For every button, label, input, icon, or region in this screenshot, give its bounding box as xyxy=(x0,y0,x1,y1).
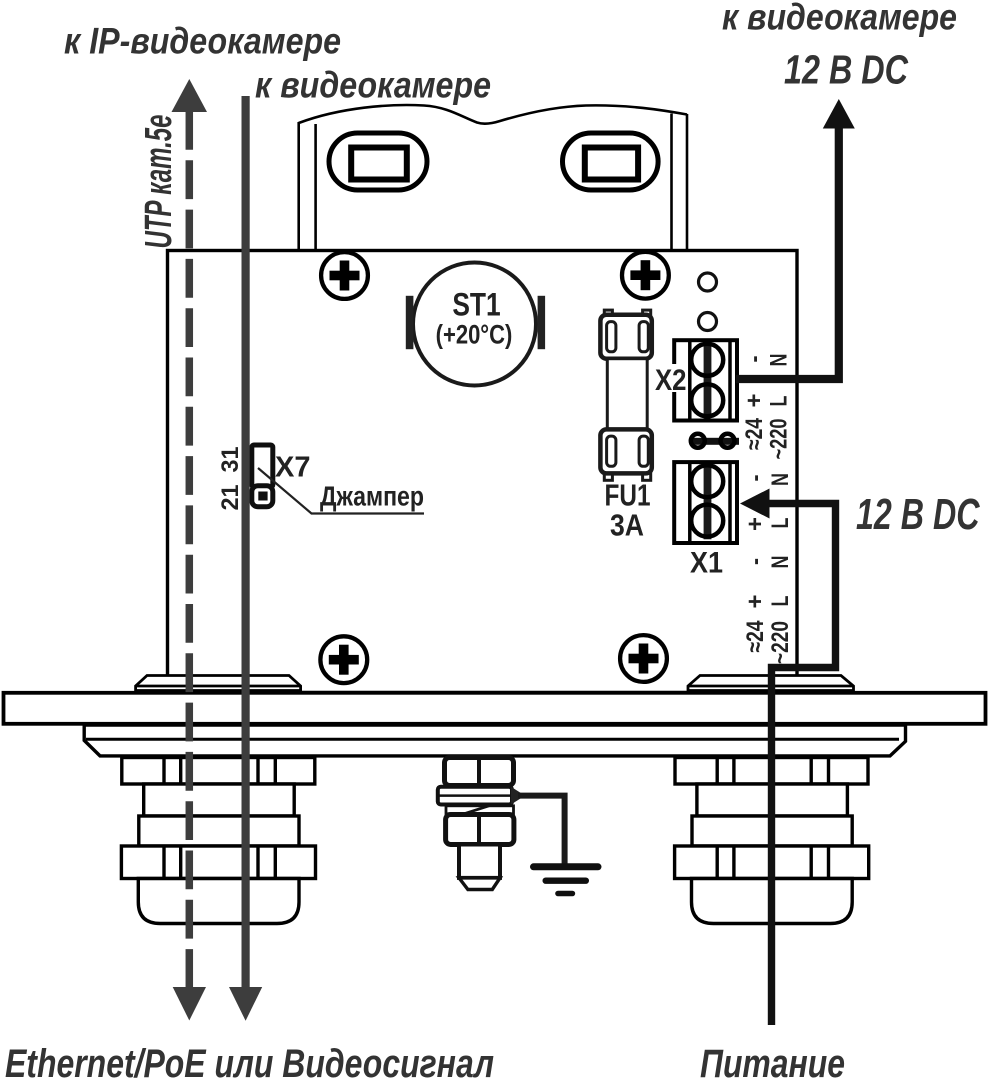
wire power to X1 xyxy=(769,504,836,1026)
X2 pin labels xyxy=(741,354,793,460)
X2 label xyxy=(652,364,678,392)
svg-text:≈24: ≈24 xyxy=(742,620,769,653)
svg-text:к видеокамере: к видеокамере xyxy=(722,0,957,38)
camera bracket xyxy=(299,105,687,250)
svg-text:-: - xyxy=(742,475,769,482)
ground xyxy=(534,867,599,894)
svg-text:Джампер: Джампер xyxy=(320,481,424,512)
screw top-right xyxy=(622,252,669,299)
svg-text:~220: ~220 xyxy=(767,621,794,664)
svg-text:+: + xyxy=(742,517,769,531)
foot right xyxy=(688,676,854,691)
ground bolt xyxy=(438,758,525,890)
mounting plate xyxy=(4,693,986,724)
bracket slot left xyxy=(329,133,427,190)
svg-text:+: + xyxy=(742,595,769,609)
svg-text:+: + xyxy=(741,394,768,408)
svg-text:3A: 3A xyxy=(610,508,644,543)
jumper X7 xyxy=(252,445,273,507)
foot left xyxy=(136,676,301,691)
svg-text:к IP-видеокамере: к IP-видеокамере xyxy=(64,21,341,62)
ST1 clip right xyxy=(538,296,546,349)
screw bottom-right xyxy=(620,635,667,682)
wire UTP dashed xyxy=(172,79,208,1021)
svg-text:(+20°C): (+20°C) xyxy=(436,320,513,350)
svg-text:≈24: ≈24 xyxy=(741,417,768,450)
terminal X2 xyxy=(674,340,737,420)
fuse FU1 xyxy=(600,310,651,480)
wire video coax xyxy=(229,96,262,1021)
svg-text:-: - xyxy=(741,356,768,363)
screw bottom-left xyxy=(320,636,367,683)
svg-text:L: L xyxy=(767,596,794,607)
svg-text:N: N xyxy=(767,556,794,569)
svg-text:Питание: Питание xyxy=(700,1042,845,1080)
X1 pin labels lower xyxy=(742,556,794,665)
svg-text:Ethernet/PoE или Видеосигнал: Ethernet/PoE или Видеосигнал xyxy=(5,1042,494,1080)
svg-text:12 В DC: 12 В DC xyxy=(856,490,980,539)
ground wire xyxy=(518,796,565,864)
svg-text:L: L xyxy=(767,518,794,529)
jumper link xyxy=(691,434,739,448)
X1 pin labels upper xyxy=(742,473,794,531)
thermostat ST1 xyxy=(413,263,536,386)
screw top-left xyxy=(321,252,368,299)
box rim xyxy=(84,725,905,756)
cable gland right xyxy=(675,758,869,924)
svg-text:L: L xyxy=(766,396,793,407)
svg-text:N: N xyxy=(767,473,794,486)
svg-text:X1: X1 xyxy=(690,547,723,580)
board hole 1 xyxy=(699,273,717,291)
board xyxy=(168,251,798,693)
svg-text:~220: ~220 xyxy=(766,419,793,460)
cable gland left xyxy=(121,758,315,924)
svg-text:12 В DC: 12 В DC xyxy=(784,47,909,93)
svg-text:21: 21 xyxy=(217,485,244,511)
svg-text:N: N xyxy=(766,354,793,367)
terminal X1 xyxy=(674,462,737,543)
X7 leader xyxy=(258,468,424,514)
bracket slot right xyxy=(563,133,659,190)
wire 12V DC to camera xyxy=(736,128,839,379)
svg-text:UTP кат.5е: UTP кат.5е xyxy=(138,115,180,249)
svg-text:ST1: ST1 xyxy=(452,287,500,323)
svg-text:-: - xyxy=(742,558,769,565)
board hole 2 xyxy=(699,313,717,331)
svg-text:X7: X7 xyxy=(275,452,310,484)
svg-text:к видеокамере: к видеокамере xyxy=(255,65,491,106)
svg-text:31: 31 xyxy=(217,447,244,473)
svg-text:X2: X2 xyxy=(655,364,687,397)
ST1 clip left xyxy=(406,296,414,349)
